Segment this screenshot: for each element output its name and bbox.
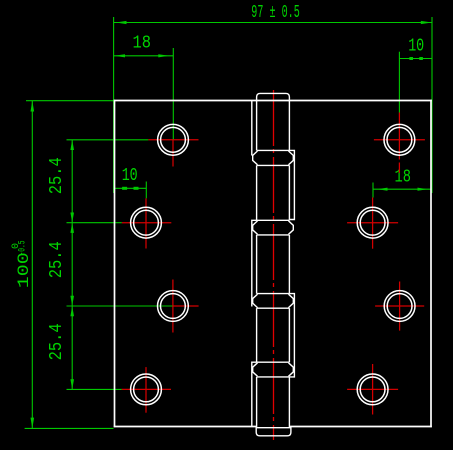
red centerlines [122, 90, 425, 440]
right leaf cut edge segment 1 with ticks [289, 150, 294, 219]
left leaf cut edge segment 2 with tick [252, 220, 257, 306]
extension line hole r1c4 vertical [398, 52, 400, 113]
chain arrow row1 up [70, 140, 74, 150]
knuckle bottom cap [256, 428, 291, 436]
hinge pin centerline [273, 90, 275, 440]
knuckle top cap [257, 93, 290, 101]
hole r4c4 [357, 374, 388, 405]
arrow 18R right [418, 188, 428, 191]
svg-text:100: 100 [15, 252, 33, 288]
svg-text:10: 10 [122, 165, 138, 186]
arrow 97 left [116, 21, 127, 24]
arrow blobs 10 top-right [409, 57, 413, 60]
bearing ring 4 [257, 361, 290, 363]
extension line hole r1c1 vertical (to center) [172, 48, 174, 139]
crosshair hole r4c1 [122, 388, 171, 390]
crosshair hole r3c1 [173, 305, 199, 307]
extension line row2 horizontal [67, 222, 122, 224]
dimension 10 left dim line [114, 187, 147, 189]
right leaf bottom edge [289, 426, 431, 428]
arrow 18TL left [114, 54, 125, 57]
svg-text:25.4: 25.4 [46, 323, 67, 360]
right leaf cut edge segment 2 with ticks [289, 294, 294, 377]
hole r4c1 [131, 374, 162, 405]
arrow 18R left [377, 188, 388, 191]
bearing ring 2 [257, 219, 290, 221]
bearing ring 1 [257, 149, 290, 151]
crosshair hole r1c4 [374, 139, 425, 141]
extension line top (y=100.7) [26, 100, 114, 102]
bearing ring 3 [257, 293, 290, 295]
hole r2c4 [357, 207, 388, 238]
chain arrows row3 [70, 296, 74, 306]
svg-text:18: 18 [133, 33, 152, 54]
extension line bottom (y=428.4) [25, 427, 114, 429]
arrow 100 top [31, 101, 35, 112]
extension line row4 horizontal [67, 388, 122, 390]
extension line row3 horizontal (to center) [67, 305, 173, 307]
hole r3c1 [158, 291, 189, 322]
leaf top edge [114, 100, 432, 102]
dimension 18 top-left dim line [114, 55, 174, 57]
arrow 100 bottom [31, 418, 35, 429]
left leaf cut edge segment 3 with tick [252, 362, 257, 426]
arrow 18TL right [158, 54, 169, 57]
hole r1c1 [158, 124, 189, 155]
hole r3c4 [384, 291, 415, 322]
dimension 18 right dim line [373, 188, 432, 190]
left leaf bottom edge [114, 426, 257, 428]
crosshair hole r1c1 [148, 139, 198, 141]
hole r2c1 [131, 207, 162, 238]
svg-text:25.4: 25.4 [46, 241, 67, 278]
25.4 chain dim line vertical [71, 140, 73, 390]
extension line hole r2c1 vertical [145, 182, 147, 199]
screw holes [131, 124, 415, 404]
svg-text:18: 18 [395, 166, 412, 187]
dimension 10 top-right dim line [399, 58, 432, 60]
svg-text:10: 10 [408, 35, 424, 56]
right leaf right edge [430, 100, 432, 428]
hole r1c4 [384, 124, 415, 155]
crosshair hole r2c4 [347, 222, 398, 224]
arrow 97 right [421, 21, 432, 24]
green extension lines to holes (drawn over red) [67, 48, 400, 389]
chain arrows row2 [70, 213, 74, 223]
crosshair hole r4c4 [347, 388, 398, 390]
crosshair hole r2c1 [122, 222, 172, 224]
left leaf left edge [114, 100, 116, 428]
knuckle body right edge segments [288, 101, 290, 150]
chain arrow row4 down [70, 379, 74, 389]
svg-text:97 ± 0.5: 97 ± 0.5 [251, 2, 299, 23]
white part geometry [114, 100, 432, 428]
svg-text:25.4: 25.4 [46, 157, 67, 194]
dimension 100 dim line vertical [31, 101, 33, 429]
crosshair hole r3c4 [375, 305, 424, 307]
dimension texts [11, 2, 424, 360]
extension line left (x=113.6) [113, 17, 115, 193]
extension line right (x=432) [431, 17, 433, 193]
extension line row1 horizontal [67, 139, 149, 141]
svg-text:-0.5: -0.5 [18, 241, 29, 256]
extension line hole r2c4 vertical [372, 183, 374, 198]
arrow blobs 10 left [122, 187, 127, 190]
knuckle body left edge segments [256, 101, 258, 150]
left leaf cut edge segment 1 [251, 101, 253, 156]
